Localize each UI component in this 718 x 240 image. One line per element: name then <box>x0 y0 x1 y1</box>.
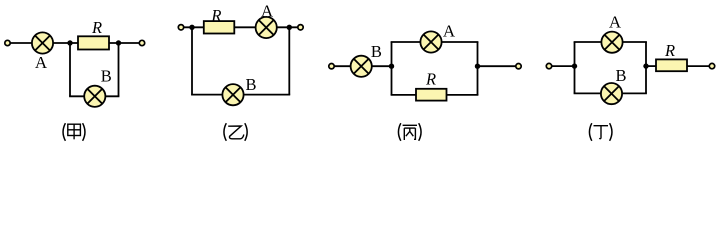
wire bottom rail <box>391 94 479 96</box>
svg-text:B: B <box>615 66 626 85</box>
svg-text:A: A <box>35 53 48 72</box>
wire vertical right branch <box>118 43 120 96</box>
wire terminal to lamp B <box>334 65 351 67</box>
wire vertical left <box>574 42 576 93</box>
svg-text:A: A <box>443 22 456 41</box>
caption glyph bing <box>403 125 417 140</box>
wire terminal to resistor <box>184 26 204 28</box>
wire lamp A to resistor <box>53 42 78 44</box>
resistor R <box>656 59 687 71</box>
junction right <box>287 25 292 30</box>
caption (yi) parentheses <box>224 123 226 141</box>
resistor R <box>78 36 109 49</box>
terminal T6 right <box>516 63 521 68</box>
terminal T4 right <box>298 25 303 30</box>
wire bottom rail <box>191 94 290 96</box>
terminal T5 left <box>329 63 334 68</box>
terminal T1 left <box>5 40 10 45</box>
wire vertical right <box>477 42 479 95</box>
svg-text:B: B <box>245 75 256 94</box>
terminal T8 right <box>709 63 714 68</box>
lamp B <box>84 86 105 107</box>
caption glyph yi <box>228 126 244 139</box>
svg-text:R: R <box>91 18 102 37</box>
caption (bing) parentheses <box>398 123 400 141</box>
wire lamp B to junction <box>372 65 392 67</box>
svg-text:R: R <box>425 69 436 88</box>
caption glyph ding <box>594 126 609 139</box>
svg-text:A: A <box>261 2 274 21</box>
svg-text:R: R <box>664 41 675 60</box>
terminal T7 left <box>546 63 551 68</box>
lamp B <box>601 83 622 104</box>
terminal T3 left <box>178 25 183 30</box>
junction right <box>643 63 648 68</box>
svg-text:B: B <box>371 42 382 61</box>
wire vertical left branch <box>69 43 71 96</box>
terminal T2 right <box>139 40 144 45</box>
lamp A <box>420 31 441 52</box>
wire junction to terminal <box>478 65 517 67</box>
wire top rail <box>391 41 479 43</box>
caption glyph jia <box>68 124 81 139</box>
wire junction to resistor <box>646 65 656 67</box>
wire terminal to lamp A <box>10 42 32 44</box>
lamp A <box>256 17 277 38</box>
svg-text:A: A <box>609 13 622 32</box>
caption (ding) parentheses <box>589 123 591 141</box>
wire resistor to terminal <box>109 42 140 44</box>
wire bottom rail <box>574 92 647 94</box>
wire lamp A to terminal <box>277 26 298 28</box>
lamp A <box>32 32 53 53</box>
wire resistor to lamp A <box>234 26 256 28</box>
wire bottom rail <box>69 95 119 97</box>
caption (jia) parentheses <box>63 123 65 141</box>
svg-text:B: B <box>101 67 112 86</box>
svg-text:R: R <box>210 6 221 25</box>
wire vertical left <box>391 42 393 95</box>
lamp A <box>601 32 622 53</box>
wire vertical right <box>645 42 647 93</box>
wire vertical left <box>191 27 193 94</box>
resistor R <box>416 89 447 101</box>
junction left <box>389 63 394 68</box>
wire vertical right <box>288 27 290 94</box>
junction left <box>189 25 194 30</box>
junction right <box>116 40 121 45</box>
wire terminal to junction <box>552 65 575 67</box>
resistor R <box>204 21 235 33</box>
junction left <box>67 40 72 45</box>
lamp B <box>351 56 372 77</box>
junction left <box>572 63 577 68</box>
wire top rail <box>574 41 647 43</box>
lamp B <box>222 84 243 105</box>
junction right <box>475 63 480 68</box>
wire resistor to terminal <box>687 65 709 67</box>
